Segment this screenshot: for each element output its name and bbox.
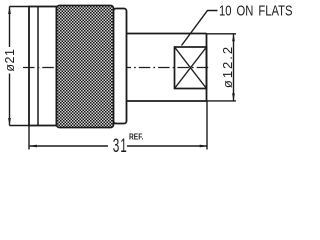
svg-text:REF.: REF.	[129, 131, 143, 141]
svg-text:31: 31	[113, 136, 128, 154]
svg-text:ø21: ø21	[3, 49, 17, 72]
svg-text:ø12.2: ø12.2	[220, 45, 235, 88]
svg-text:10 ON FLATS: 10 ON FLATS	[219, 2, 293, 19]
